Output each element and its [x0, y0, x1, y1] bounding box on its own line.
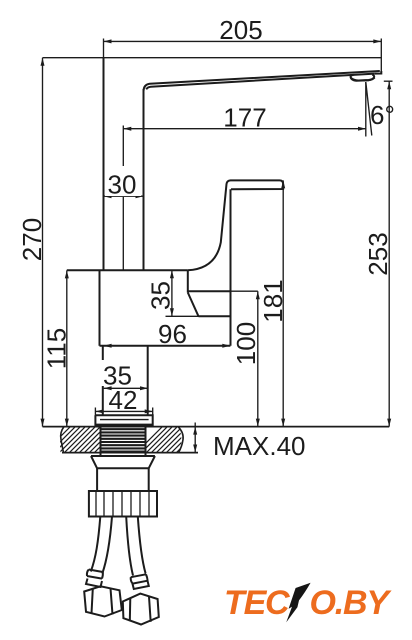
svg-text:253: 253	[363, 232, 393, 275]
svg-text:42: 42	[109, 385, 138, 415]
svg-text:6°: 6°	[370, 100, 395, 130]
svg-text:205: 205	[219, 15, 262, 45]
svg-text:270: 270	[17, 218, 47, 261]
svg-text:MAX.40: MAX.40	[213, 431, 306, 461]
svg-text:96: 96	[158, 319, 187, 349]
svg-text:30: 30	[108, 170, 137, 200]
svg-text:181: 181	[258, 279, 288, 322]
svg-text:100: 100	[231, 322, 261, 365]
svg-text:35: 35	[146, 281, 176, 310]
svg-text:177: 177	[223, 103, 266, 133]
svg-text:TEC: TEC	[224, 584, 290, 622]
svg-text:O.BY: O.BY	[310, 584, 393, 622]
svg-text:115: 115	[42, 328, 72, 369]
